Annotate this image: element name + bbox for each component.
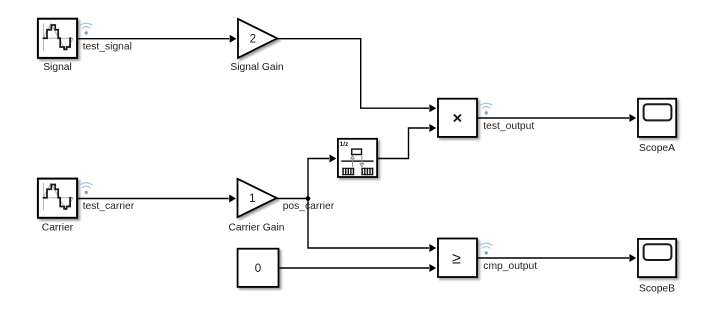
svg-text:ScopeA: ScopeA: [639, 143, 675, 154]
svg-text:ScopeB: ScopeB: [639, 283, 675, 294]
svg-text:1/z: 1/z: [340, 141, 349, 148]
svg-text:test_output: test_output: [483, 121, 534, 132]
svg-text:1: 1: [249, 193, 255, 205]
svg-text:cmp_output: cmp_output: [483, 261, 537, 272]
svg-text:2: 2: [250, 34, 256, 46]
svg-text:Signal: Signal: [43, 62, 72, 73]
svg-text:Carrier Gain: Carrier Gain: [228, 222, 284, 233]
svg-text:Signal Gain: Signal Gain: [230, 62, 284, 73]
svg-text:test_signal: test_signal: [83, 41, 132, 52]
svg-text:Carrier: Carrier: [42, 222, 74, 233]
svg-text:test_carrier: test_carrier: [83, 201, 135, 212]
svg-text:≥: ≥: [452, 251, 461, 268]
svg-text:0: 0: [255, 263, 261, 275]
svg-text:pos_carrier: pos_carrier: [283, 201, 335, 212]
